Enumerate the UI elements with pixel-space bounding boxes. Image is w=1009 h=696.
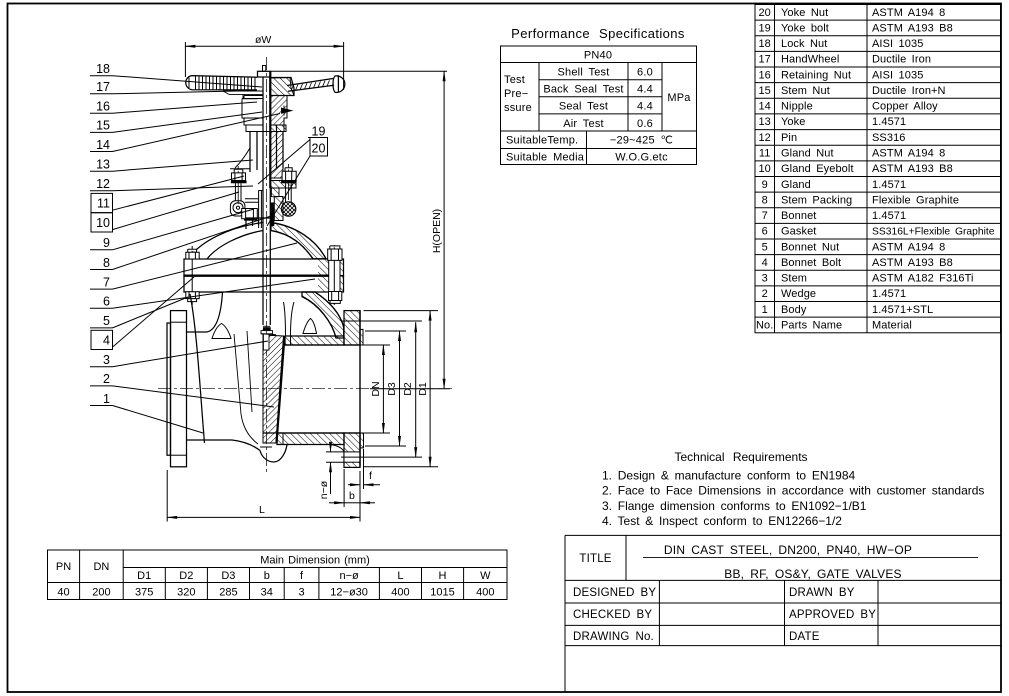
svg-text:Bonnet: Bonnet (781, 210, 816, 222)
dimension øW (185, 42, 343, 90)
svg-text:BB, RF, OS&Y, GATE VALVES: BB, RF, OS&Y, GATE VALVES (724, 567, 902, 581)
handwheel rim right end (333, 75, 345, 92)
svg-text:Performance Specifications: Performance Specifications (511, 26, 685, 41)
svg-text:ASTM A194 8: ASTM A194 8 (872, 241, 945, 253)
svg-text:1.4571: 1.4571 (872, 288, 906, 300)
dimension DN (364, 345, 391, 433)
svg-text:285: 285 (219, 587, 237, 599)
svg-text:12: 12 (96, 177, 110, 191)
gland eyebolt right / yoke bolt (19) (281, 164, 296, 202)
svg-text:10: 10 (758, 163, 770, 175)
stem nut (left outline) (242, 96, 284, 132)
parts list table (755, 5, 1001, 333)
svg-text:375: 375 (135, 587, 153, 599)
svg-text:L: L (259, 504, 265, 516)
lock nut / stem top cap (258, 71, 271, 77)
svg-text:19: 19 (758, 22, 770, 34)
main dimension table (48, 550, 508, 600)
svg-text:DESIGNED BY: DESIGNED BY (573, 587, 656, 599)
svg-text:ssure: ssure (504, 102, 532, 114)
svg-text:Air Test: Air Test (563, 118, 604, 130)
svg-text:SS316: SS316 (872, 132, 906, 144)
retaining nut above (270, 78, 294, 96)
svg-text:Technical Requirements: Technical Requirements (674, 450, 807, 464)
yoke nut pivot right (20, sectioned) (281, 202, 296, 217)
svg-text:3: 3 (103, 353, 110, 367)
svg-text:40: 40 (57, 587, 69, 599)
body bottom bulge under seat (260, 445, 287, 463)
gasket (6) (184, 275, 329, 277)
svg-text:Gland Eyebolt: Gland Eyebolt (781, 163, 854, 175)
svg-text:16: 16 (758, 69, 770, 81)
svg-text:Stem Nut: Stem Nut (781, 85, 830, 97)
gland (9) arm and gland nut (11) (242, 199, 259, 220)
svg-text:PN: PN (56, 561, 71, 573)
handwheel hub (section) (270, 78, 294, 96)
svg-text:1015: 1015 (430, 587, 454, 599)
svg-text:1.4571: 1.4571 (872, 210, 906, 222)
bonnet right section wall (271, 223, 326, 259)
svg-text:1.4571: 1.4571 (872, 116, 906, 128)
svg-text:Stem Packing: Stem Packing (781, 194, 852, 206)
right flange bottom block (344, 433, 364, 467)
yoke head arm (sectioned) (270, 181, 296, 189)
svg-text:12−ø30: 12−ø30 (330, 587, 368, 599)
svg-text:17: 17 (758, 54, 770, 66)
svg-text:400: 400 (476, 587, 494, 599)
svg-text:2. Face to Face Dimensions in: 2. Face to Face Dimensions in accordance… (602, 484, 984, 498)
svg-text:Yoke Nut: Yoke Nut (781, 7, 828, 19)
svg-text:Flexible Graphite: Flexible Graphite (872, 194, 959, 206)
dimension D3 (365, 331, 406, 446)
svg-text:Shell Test: Shell Test (558, 67, 610, 79)
handwheel spoke right (287, 79, 334, 92)
pipe top wall (section) (285, 336, 344, 345)
svg-text:8: 8 (762, 194, 768, 206)
svg-text:SuitableTemp.: SuitableTemp. (506, 135, 578, 147)
svg-text:5: 5 (103, 314, 110, 328)
svg-text:ASTM A182 F316Ti: ASTM A182 F316Ti (872, 273, 974, 285)
svg-text:Main Dimension (mm): Main Dimension (mm) (260, 555, 370, 567)
technical requirements (602, 450, 984, 528)
svg-text:Suitable Media: Suitable Media (506, 152, 585, 164)
svg-text:6: 6 (762, 226, 768, 238)
bore lines (285, 344, 360, 346)
svg-text:DRAWN BY: DRAWN BY (789, 587, 855, 599)
dimension D1 (364, 311, 439, 467)
svg-text:11: 11 (97, 197, 110, 211)
grease nipple 14 (281, 108, 294, 114)
body right section: upper wall (302, 292, 344, 338)
bonnet bolt right (sectioned side) (328, 245, 342, 305)
svg-text:17: 17 (96, 80, 110, 94)
svg-text:6: 6 (103, 295, 110, 309)
svg-text:12: 12 (758, 132, 770, 144)
handwheel underside (223, 91, 264, 99)
svg-text:Ductile Iron: Ductile Iron (872, 54, 931, 66)
leader labels 1-18 (90, 76, 315, 433)
svg-text:1.4571+STL: 1.4571+STL (872, 304, 933, 316)
yoke columns (230, 125, 283, 172)
svg-text:W.O.G.etc: W.O.G.etc (615, 152, 668, 164)
stem packing (8) (271, 203, 275, 227)
svg-text:6.0: 6.0 (637, 67, 653, 79)
stuffing box (sectioned) (274, 197, 283, 221)
dimension D2 (341, 321, 422, 457)
bonnet bolt left (4) with nuts (5) (186, 246, 199, 305)
svg-text:Ductile Iron+N: Ductile Iron+N (872, 85, 946, 97)
svg-text:Yoke: Yoke (781, 116, 805, 128)
svg-text:10: 10 (96, 216, 110, 230)
svg-text:Gland Nut: Gland Nut (781, 148, 834, 160)
svg-text:Yoke bolt: Yoke bolt (781, 22, 829, 34)
svg-text:4. Test & Inspect conform to: 4. Test & Inspect conform to EN12266−1/2 (602, 514, 842, 528)
svg-text:3. Flange dimension conforms: 3. Flange dimension conforms to EN1092−1… (602, 499, 867, 513)
svg-text:16: 16 (96, 100, 110, 114)
svg-text:3: 3 (298, 587, 304, 599)
body left flange (1) (167, 311, 187, 467)
svg-text:ASTM A194 8: ASTM A194 8 (872, 7, 945, 19)
svg-text:Wedge: Wedge (781, 288, 816, 300)
svg-text:b: b (264, 570, 270, 582)
svg-text:9: 9 (103, 236, 110, 250)
svg-text:1: 1 (103, 392, 110, 406)
center line horizontal (pipe axis) (158, 388, 452, 390)
svg-text:4.4: 4.4 (637, 84, 653, 96)
svg-text:18: 18 (758, 38, 770, 50)
svg-text:Stem: Stem (781, 273, 807, 285)
right flange top block (344, 311, 363, 345)
pivot pin left (12) (230, 201, 245, 216)
svg-text:f: f (300, 570, 304, 582)
dimension L (167, 470, 360, 522)
wedge top step / seat (260, 334, 277, 447)
body rib gusset right (section) (303, 319, 317, 334)
dimension n-ø (bolt holes) (326, 443, 344, 494)
dimension b (329, 469, 375, 507)
yoke column right (sectioned) (270, 132, 283, 179)
svg-text:−29~425 ℃: −29~425 ℃ (610, 135, 673, 147)
svg-text:HandWheel: HandWheel (781, 54, 839, 66)
svg-text:8: 8 (103, 256, 110, 270)
flange right hatched sections (318, 259, 329, 292)
svg-text:0.6: 0.6 (637, 118, 653, 130)
svg-text:2: 2 (103, 372, 110, 386)
svg-text:AISI 1035: AISI 1035 (872, 38, 923, 50)
svg-text:34: 34 (261, 587, 273, 599)
svg-text:Body: Body (781, 304, 807, 316)
svg-text:H(OPEN): H(OPEN) (431, 209, 443, 253)
svg-text:Back Seal Test: Back Seal Test (543, 84, 623, 96)
svg-text:ASTM A193 B8: ASTM A193 B8 (872, 257, 953, 269)
svg-text:SS316L+Flexible Graphite: SS316L+Flexible Graphite (872, 227, 995, 238)
center line vertical (stem axis) (266, 57, 268, 473)
dimension H(OPEN) (271, 71, 451, 388)
svg-text:PN40: PN40 (584, 50, 612, 62)
svg-text:D3: D3 (386, 382, 398, 396)
body rib gusset left (212, 324, 231, 339)
performance specifications table (501, 46, 697, 165)
svg-text:4.4: 4.4 (637, 101, 653, 113)
svg-text:APPROVED BY: APPROVED BY (789, 609, 876, 621)
svg-text:Parts Name: Parts Name (781, 319, 842, 331)
labels 19 / 20 with box (258, 138, 328, 227)
svg-text:n−ø: n−ø (339, 570, 359, 582)
dimension f (348, 449, 380, 489)
svg-text:20: 20 (758, 7, 770, 19)
svg-text:200: 200 (92, 587, 110, 599)
title block (565, 535, 1001, 692)
svg-text:D1: D1 (137, 570, 151, 582)
svg-text:Copper Alloy: Copper Alloy (872, 101, 938, 113)
svg-text:1: 1 (762, 304, 768, 316)
svg-text:3: 3 (762, 273, 768, 285)
svg-text:14: 14 (96, 138, 110, 152)
svg-text:Pin: Pin (781, 132, 797, 144)
svg-text:H: H (439, 570, 447, 582)
svg-text:9: 9 (762, 179, 768, 191)
stem nut (right section) (270, 96, 287, 126)
body neck left (187, 292, 261, 451)
svg-text:400: 400 (391, 587, 409, 599)
svg-text:11: 11 (759, 148, 771, 160)
svg-text:ASTM A194 8: ASTM A194 8 (872, 148, 945, 160)
svg-text:CHECKED BY: CHECKED BY (573, 609, 652, 621)
svg-text:4: 4 (762, 257, 768, 269)
body waist contour lines (234, 331, 258, 444)
svg-text:5: 5 (762, 241, 768, 253)
svg-text:DRAWING No.: DRAWING No. (573, 631, 654, 643)
svg-text:D1: D1 (417, 382, 429, 396)
svg-text:15: 15 (96, 119, 110, 133)
svg-text:18: 18 (96, 62, 110, 76)
svg-text:ASTM A193 B8: ASTM A193 B8 (872, 22, 953, 34)
svg-text:AISI 1035: AISI 1035 (872, 69, 923, 81)
svg-text:4: 4 (103, 333, 110, 347)
svg-text:15: 15 (758, 85, 770, 97)
svg-text:Material: Material (872, 319, 912, 331)
svg-text:2: 2 (762, 288, 768, 300)
svg-text:DN: DN (93, 561, 109, 573)
wedge (2) (263, 334, 285, 443)
handwheel rim ribs (189, 76, 255, 90)
svg-text:b: b (349, 490, 355, 502)
svg-text:Lock Nut: Lock Nut (781, 38, 827, 50)
svg-text:n−ø: n−ø (318, 480, 330, 499)
svg-text:Seal Test: Seal Test (559, 101, 608, 113)
svg-text:Nipple: Nipple (781, 101, 813, 113)
svg-text:20: 20 (312, 142, 326, 156)
svg-text:7: 7 (103, 275, 110, 289)
svg-text:320: 320 (177, 587, 195, 599)
handwheel rim left (186, 76, 257, 90)
svg-text:Bonnet Bolt: Bonnet Bolt (781, 257, 841, 269)
pipe bottom wall (section) (277, 433, 344, 445)
gland eyebolt left (10) with gland nut (231, 166, 247, 204)
svg-text:14: 14 (758, 101, 770, 113)
svg-text:DIN CAST STEEL, DN200, PN40, H: DIN CAST STEEL, DN200, PN40, HW−OP (664, 543, 912, 557)
svg-text:No.: No. (756, 319, 773, 331)
svg-text:D2: D2 (179, 570, 193, 582)
svg-text:MPa: MPa (667, 92, 691, 104)
svg-text:W: W (480, 570, 491, 582)
bonnet left outline (188, 218, 270, 259)
svg-text:ASTM A193 B8: ASTM A193 B8 (872, 163, 953, 175)
svg-text:D2: D2 (402, 382, 414, 396)
bonnet flange / body flange (184, 259, 344, 292)
svg-text:L: L (397, 570, 403, 582)
flange face line (359, 311, 361, 467)
svg-text:D3: D3 (221, 570, 235, 582)
svg-text:øW: øW (255, 34, 271, 46)
svg-text:DATE: DATE (789, 631, 820, 643)
svg-text:1. Design & manufacture confo: 1. Design & manufacture conform to EN198… (602, 469, 856, 483)
svg-text:7: 7 (762, 210, 768, 222)
svg-text:TITLE: TITLE (579, 553, 611, 565)
svg-text:Pre−: Pre− (504, 88, 528, 100)
svg-text:Bonnet Nut: Bonnet Nut (781, 241, 839, 253)
svg-text:1.4571: 1.4571 (872, 179, 906, 191)
svg-text:Retaining Nut: Retaining Nut (781, 69, 851, 81)
svg-text:13: 13 (96, 158, 110, 172)
svg-text:Gland: Gland (781, 179, 811, 191)
svg-text:19: 19 (312, 125, 326, 139)
svg-text:f: f (369, 470, 372, 482)
svg-text:Test: Test (504, 74, 525, 86)
stem T-head in wedge (263, 325, 270, 327)
svg-text:DN: DN (370, 381, 382, 396)
svg-text:13: 13 (758, 116, 770, 128)
stem (263, 71, 270, 325)
svg-text:Gasket: Gasket (781, 226, 816, 238)
gland follower (258, 191, 263, 229)
